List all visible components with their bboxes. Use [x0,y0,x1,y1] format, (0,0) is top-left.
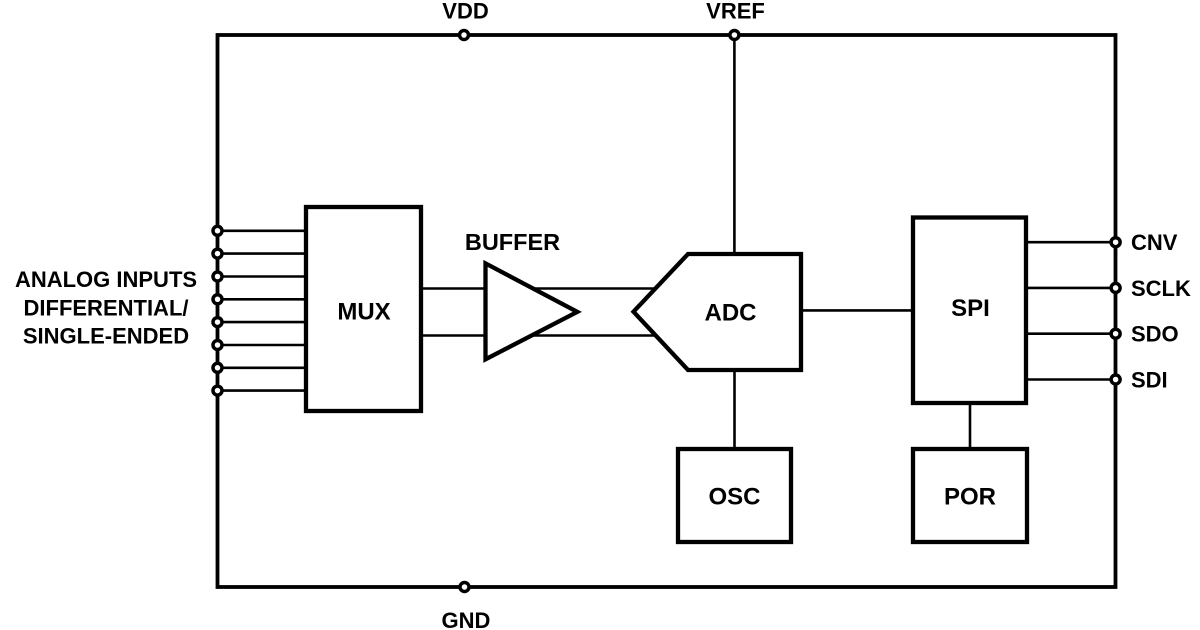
block SPI [913,218,1026,404]
pin VREF [730,31,739,40]
wire analog input 6 [218,344,307,347]
wire analog input 3 [218,275,307,278]
svg-text:SCLK: SCLK [1131,276,1191,301]
pin CNV [1111,238,1120,247]
pin SDI [1111,375,1120,384]
wire analog input 8 [218,389,307,392]
pin analog input 8 [213,386,222,395]
pin SDO [1111,329,1120,338]
block MUX [306,207,421,411]
wire SPI to SDO pin [1026,332,1116,335]
svg-text:CNV: CNV [1131,230,1178,255]
wire VREF to ADC [733,35,736,258]
pin analog input 5 [213,318,222,327]
pin VDD [460,31,469,40]
wire SPI to SCLK pin [1026,287,1116,290]
svg-text:VDD: VDD [442,0,488,23]
pin SCLK [1111,283,1120,292]
pin analog input 7 [213,363,222,372]
svg-text:ADC: ADC [705,300,757,327]
svg-text:SDI: SDI [1131,368,1168,393]
pin analog input 3 [213,272,222,281]
buffer amplifier triangle [486,263,578,359]
svg-text:BUFFER: BUFFER [465,229,560,255]
svg-text:OSC: OSC [708,484,760,511]
wire analog input 5 [218,321,307,324]
svg-text:VREF: VREF [706,0,765,23]
wire analog input 4 [218,298,307,301]
svg-text:ANALOG INPUTS: ANALOG INPUTS [15,267,197,292]
wire analog input 1 [218,230,307,233]
svg-text:SPI: SPI [951,295,990,322]
wire MUX to ADC lower [421,334,662,337]
svg-text:SDO: SDO [1131,322,1179,347]
wire analog input 7 [218,366,307,369]
svg-text:SINGLE-ENDED: SINGLE-ENDED [23,324,189,349]
pin analog input 2 [213,249,222,258]
wire SPI to POR [969,401,972,450]
pin analog input 1 [213,226,222,235]
wire ADC to OSC [733,368,736,450]
wire MUX to ADC upper [421,287,662,290]
block OSC [678,449,791,542]
wire analog input 2 [218,252,307,255]
wire SPI to CNV pin [1026,241,1116,244]
wire ADC to SPI [799,309,915,312]
pin analog input 6 [213,341,222,350]
pin GND [460,583,469,592]
block ADC [634,254,802,370]
chip outline [218,35,1116,587]
svg-text:MUX: MUX [337,299,390,326]
wire SPI to SDI pin [1026,378,1116,381]
svg-text:GND: GND [442,608,491,630]
block POR [913,449,1027,542]
svg-text:POR: POR [944,484,996,511]
pin analog input 4 [213,295,222,304]
svg-text:DIFFERENTIAL/: DIFFERENTIAL/ [24,296,189,321]
